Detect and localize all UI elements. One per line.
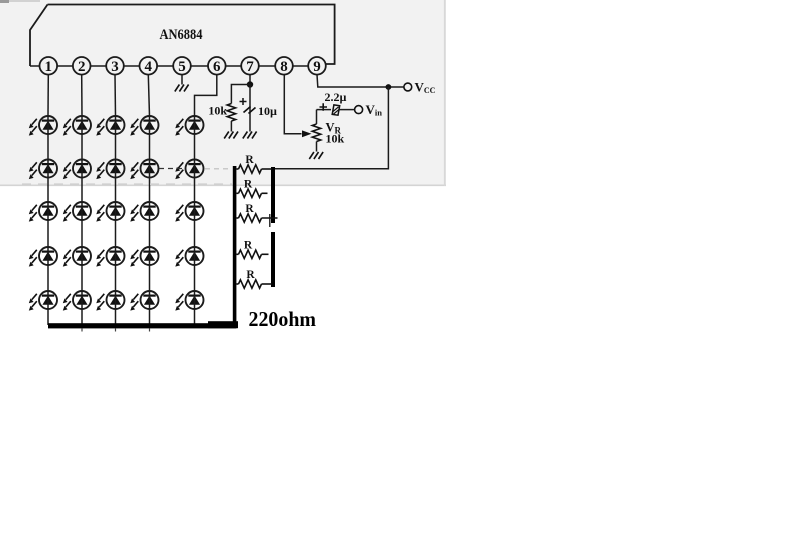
wire Vcc rail down to ladder bbox=[273, 87, 388, 169]
svg-text:2.2µ: 2.2µ bbox=[325, 90, 347, 104]
junction node pin 7 bbox=[247, 81, 253, 87]
plus sign C 10u bbox=[240, 98, 247, 105]
wire column 5 to bottom bus bbox=[194, 309, 196, 325]
wire column 2 row 3-4 bbox=[81, 220, 83, 247]
LED D51 bbox=[29, 291, 57, 311]
pin 7 bbox=[241, 57, 259, 75]
LED D43 bbox=[96, 247, 124, 267]
ground at pin 5 bbox=[175, 85, 180, 92]
LED D23 bbox=[96, 160, 124, 180]
LED D21 bbox=[29, 160, 57, 180]
LED D24 bbox=[130, 160, 158, 180]
wire column 1 row 2-3 bbox=[47, 178, 49, 203]
resistor R4 220ohm bbox=[236, 253, 238, 255]
LED D32 bbox=[63, 202, 91, 222]
faint dashes right of row 2 col5 bbox=[205, 168, 229, 170]
svg-text:R: R bbox=[244, 179, 253, 191]
ground below 10u bbox=[243, 132, 248, 139]
pin 4 bbox=[140, 57, 158, 75]
LED D45 bbox=[175, 247, 203, 267]
wire pin 2 to LED column 2 bbox=[81, 75, 83, 116]
LED D22 bbox=[63, 160, 91, 180]
IC U1 AN6884 outline bbox=[48, 5, 335, 65]
pin 1 bbox=[40, 57, 58, 75]
LED D54 bbox=[130, 291, 158, 311]
LED D25 bbox=[175, 160, 203, 180]
LED D31 bbox=[29, 202, 57, 222]
thick bottom bus right-end blob bbox=[208, 321, 238, 328]
wire column 5 row 4-5 bbox=[194, 265, 196, 291]
plus sign C 2.2u bbox=[320, 103, 328, 111]
wire column 3 row 1-2 bbox=[115, 134, 117, 160]
IC bottom edge / pin bus bbox=[30, 65, 326, 67]
wire cap to Vin terminal bbox=[340, 109, 355, 111]
resistor R1 220ohm bbox=[236, 168, 238, 170]
wire pin 1 to LED column 1 bbox=[47, 75, 49, 116]
thick bus right bar upper bbox=[271, 167, 275, 223]
potentiometer VR 10k bbox=[312, 124, 320, 142]
wire VR top to capacitor 2.2u bbox=[317, 109, 332, 111]
svg-text:R: R bbox=[244, 240, 253, 252]
LED D34 bbox=[130, 202, 158, 222]
scanned image background bbox=[0, 0, 446, 186]
wire column 3 row 2-3 bbox=[115, 178, 117, 203]
dashed wire row 2 col4-col5 bbox=[159, 168, 183, 170]
ground below VR bbox=[309, 152, 314, 159]
wire column 2 row 1-2 bbox=[81, 134, 83, 160]
svg-text:8: 8 bbox=[280, 59, 288, 75]
wire stubs below bus cols 2-4 bbox=[81, 328, 83, 331]
pin 3 bbox=[106, 57, 124, 75]
svg-text:R: R bbox=[245, 203, 254, 215]
resistor R5 220ohm bbox=[236, 283, 238, 285]
capacitor C 2.2u bbox=[332, 105, 340, 115]
svg-text:3: 3 bbox=[111, 59, 119, 75]
capacitor C 10u plates bbox=[244, 107, 251, 113]
svg-text:10µ: 10µ bbox=[258, 104, 277, 118]
wire node to Vcc terminal bbox=[391, 86, 404, 88]
wire node to capacitor 10u bbox=[249, 85, 251, 132]
LED D55 bbox=[175, 291, 203, 311]
wiper arrow into VR bbox=[302, 130, 312, 137]
wire column 2 row 2-3 bbox=[81, 178, 83, 203]
svg-text:AN6884: AN6884 bbox=[160, 27, 203, 43]
wire column 4 row 2-3 bbox=[149, 178, 151, 203]
wire pin 8 down bbox=[284, 75, 302, 134]
wire column 1 row 4-5 bbox=[47, 265, 49, 291]
svg-text:2: 2 bbox=[78, 59, 86, 75]
pin 2 bbox=[73, 57, 91, 75]
wire column 3 row 3-4 bbox=[115, 220, 117, 247]
wire column 4 row 4-5 bbox=[149, 265, 151, 291]
LED D42 bbox=[63, 247, 91, 267]
pin 8 bbox=[275, 57, 293, 75]
wire pin 5 stub bbox=[181, 75, 183, 85]
tick near R3 bbox=[269, 214, 271, 227]
pin 6 bbox=[208, 57, 226, 75]
svg-text:1: 1 bbox=[45, 59, 53, 75]
wire column 5 row 1-2 bbox=[194, 134, 196, 160]
wire pin 4 to LED column 4 bbox=[148, 75, 149, 116]
terminal Vin bbox=[355, 106, 363, 114]
ground below 10k bbox=[224, 132, 229, 139]
LED D14 bbox=[130, 116, 158, 136]
resistor R2 220ohm bbox=[236, 192, 238, 194]
wire pin 3 to LED column 3 bbox=[114, 75, 117, 116]
wire pin 7 down bbox=[249, 75, 251, 85]
svg-text:R: R bbox=[245, 154, 254, 166]
terminal Vcc bbox=[404, 83, 412, 91]
junction node Vcc bbox=[386, 84, 392, 90]
LED D33 bbox=[96, 202, 124, 222]
wire node to 10k resistor bbox=[231, 85, 250, 104]
resistor 10k (pin7) bbox=[227, 104, 235, 122]
wire VR bottom bbox=[316, 142, 318, 152]
thick bus right bar lower bbox=[271, 232, 275, 287]
faint scan artifact dashes bbox=[22, 183, 232, 185]
resistor R3 220ohm bbox=[236, 217, 238, 219]
svg-text:7: 7 bbox=[246, 59, 254, 75]
pin 9 bbox=[308, 57, 326, 75]
svg-text:220ohm: 220ohm bbox=[249, 307, 317, 331]
LED D15 bbox=[175, 116, 203, 136]
thick bottom bus bbox=[48, 323, 236, 328]
wire column 2 row 4-5 bbox=[81, 265, 83, 291]
svg-text:9: 9 bbox=[313, 59, 321, 75]
LED D35 bbox=[175, 202, 203, 222]
wire column 4 row 1-2 bbox=[149, 134, 151, 160]
svg-text:4: 4 bbox=[145, 59, 153, 75]
wire pin 9 to Vcc bbox=[317, 75, 388, 87]
LED D53 bbox=[96, 291, 124, 311]
svg-text:10k: 10k bbox=[326, 132, 345, 146]
LED D12 bbox=[63, 116, 91, 136]
wire column 5 row 2-3 bbox=[194, 178, 196, 203]
svg-text:10k: 10k bbox=[208, 104, 227, 118]
wire column 1 row 3-4 bbox=[47, 220, 49, 247]
wire column 3 to bottom bus bbox=[115, 309, 117, 325]
wire column 4 row 3-4 bbox=[149, 220, 151, 247]
wire 10k to ground bbox=[230, 121, 232, 132]
wire column 2 to bottom bus bbox=[81, 309, 83, 325]
LED D13 bbox=[96, 116, 124, 136]
wire column 1 to bottom bus bbox=[47, 309, 49, 325]
LED D52 bbox=[63, 291, 91, 311]
LED D41 bbox=[29, 247, 57, 267]
svg-text:5: 5 bbox=[178, 59, 186, 75]
wire pin 6 to LED column 5 bbox=[195, 75, 217, 116]
thick bus left bar bbox=[233, 166, 237, 328]
svg-text:R: R bbox=[246, 269, 255, 281]
LED D11 bbox=[29, 116, 57, 136]
wire VR top bbox=[316, 110, 318, 124]
wire column 3 row 4-5 bbox=[115, 265, 117, 291]
pin 5 bbox=[173, 57, 191, 75]
wire column 1 row 1-2 bbox=[47, 134, 49, 160]
svg-text:6: 6 bbox=[213, 59, 221, 75]
wire column 5 row 3-4 bbox=[194, 220, 196, 247]
wire column 4 to bottom bus bbox=[149, 309, 151, 325]
LED D44 bbox=[130, 247, 158, 267]
